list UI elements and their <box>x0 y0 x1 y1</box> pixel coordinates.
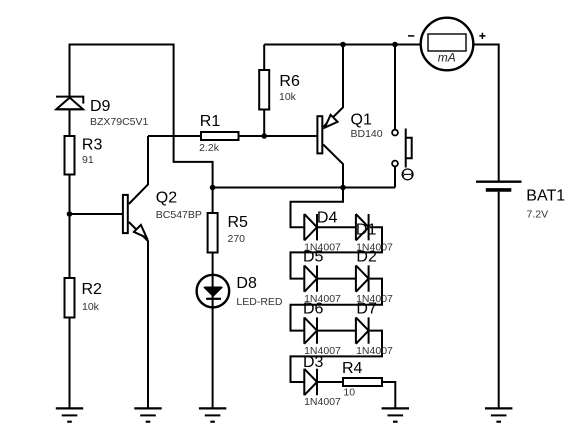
svg-text:R5: R5 <box>228 214 249 231</box>
svg-text:10: 10 <box>343 387 355 399</box>
svg-text:D4: D4 <box>317 210 338 227</box>
svg-text:R6: R6 <box>279 73 300 90</box>
svg-text:LED-RED: LED-RED <box>236 296 283 308</box>
svg-text:R2: R2 <box>82 281 103 298</box>
svg-text:BZX79C5V1: BZX79C5V1 <box>90 116 149 128</box>
svg-text:1N4007: 1N4007 <box>356 293 393 305</box>
svg-text:1N4007: 1N4007 <box>356 345 393 357</box>
svg-text:10k: 10k <box>279 91 297 103</box>
svg-text:1N4007: 1N4007 <box>304 345 341 357</box>
svg-text:mA: mA <box>438 51 456 65</box>
svg-text:R3: R3 <box>82 136 103 153</box>
svg-text:D1: D1 <box>356 222 377 239</box>
svg-text:Q1: Q1 <box>351 112 372 129</box>
svg-text:R4: R4 <box>342 360 363 377</box>
svg-text:1N4007: 1N4007 <box>356 241 393 253</box>
svg-text:270: 270 <box>228 233 246 245</box>
svg-text:BC547BP: BC547BP <box>156 209 202 221</box>
svg-text:D9: D9 <box>90 98 111 115</box>
svg-text:BD140: BD140 <box>351 128 383 140</box>
svg-text:1N4007: 1N4007 <box>304 293 341 305</box>
svg-text:1N4007: 1N4007 <box>304 241 341 253</box>
svg-text:91: 91 <box>82 154 94 166</box>
svg-text:BAT1: BAT1 <box>526 188 565 205</box>
svg-text:Q2: Q2 <box>156 189 177 206</box>
svg-text:R1: R1 <box>200 113 221 130</box>
svg-text:10k: 10k <box>82 301 100 313</box>
svg-text:2.2k: 2.2k <box>199 142 220 154</box>
svg-text:D8: D8 <box>236 275 257 292</box>
svg-text:7.2V: 7.2V <box>527 208 549 220</box>
svg-text:1N4007: 1N4007 <box>304 396 341 408</box>
